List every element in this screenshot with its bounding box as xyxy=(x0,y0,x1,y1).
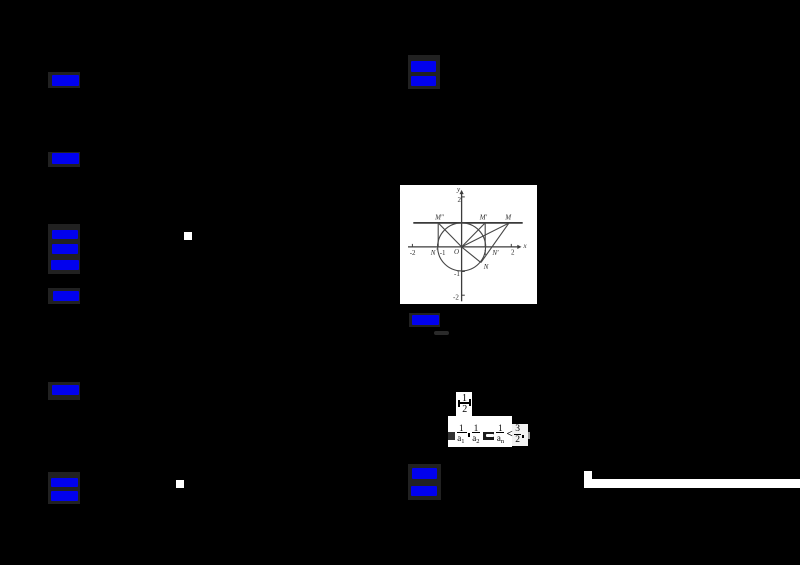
svg-text:1: 1 xyxy=(484,249,488,257)
svg-text:-1: -1 xyxy=(440,249,446,257)
svg-text:2: 2 xyxy=(511,249,515,257)
svg-text:N′: N′ xyxy=(491,249,499,257)
svg-text:M: M xyxy=(504,214,512,222)
svg-text:2: 2 xyxy=(458,196,462,204)
svg-text:O: O xyxy=(454,248,459,256)
svg-text:N: N xyxy=(483,263,489,271)
svg-text:-2: -2 xyxy=(453,293,459,301)
svg-text:M″: M″ xyxy=(434,214,444,222)
svg-text:-2: -2 xyxy=(410,249,416,257)
svg-text:-1: -1 xyxy=(454,270,460,278)
svg-text:x: x xyxy=(523,242,528,250)
svg-text:M′: M′ xyxy=(479,214,488,222)
svg-text:y: y xyxy=(456,186,461,194)
